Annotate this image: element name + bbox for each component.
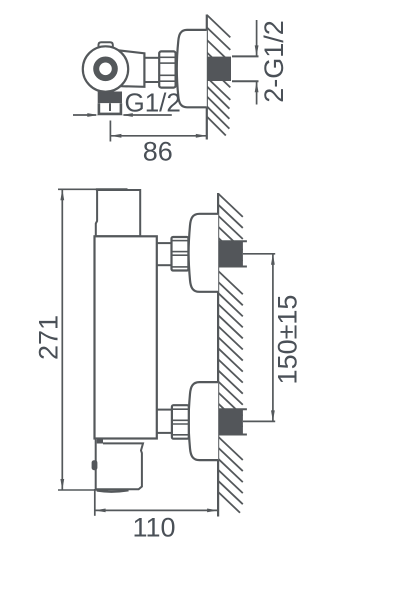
wall section line (top view) [206, 15, 208, 140]
arm upper (front view) [157, 243, 172, 265]
svg-text:271: 271 [34, 315, 64, 360]
neck (top view) [144, 58, 159, 82]
outlet block (top view) [98, 92, 122, 104]
dimension 110 line [95, 509, 219, 511]
wall hatching (front view) [218, 194, 243, 513]
collar nut upper (front view) [172, 237, 189, 271]
thermostat handle circle [83, 46, 128, 91]
outlet thread (top view) [99, 103, 121, 114]
bottom shade arc [97, 490, 129, 491]
dimension 110 extension line left [94, 489, 96, 516]
dimension 150±15 line [272, 254, 274, 422]
dimension 86 extension line [109, 121, 111, 142]
handle ring [96, 60, 115, 79]
supply pipe stub upper (front view) [243, 240, 248, 267]
dimension 271 bottom extension line [58, 489, 108, 491]
supply pipe stub lower (front view) [243, 408, 248, 435]
wall pipe block lower (front view) [218, 409, 243, 434]
collar nut (top view) [159, 51, 175, 87]
escutcheon dome upper (front view) [189, 214, 219, 292]
top knob shade [96, 188, 128, 191]
collar nut lower (front view) [172, 405, 189, 439]
svg-text:G1/2: G1/2 [125, 87, 181, 117]
escutcheon dome lower (front view) [189, 382, 219, 460]
side lever blob [92, 460, 98, 470]
wall pipe block (top view) [207, 57, 231, 81]
wall section line (front view) [217, 193, 219, 517]
inlet pipe stub (top view) [232, 55, 259, 82]
svg-text:150±15: 150±15 [273, 295, 303, 385]
svg-text:2-G1/2: 2-G1/2 [259, 20, 289, 103]
wall pipe block upper (front view) [218, 241, 243, 266]
wall hatching (top view) [207, 15, 231, 136]
dimension 2-G1/2 lines [256, 20, 258, 105]
valve body horn [110, 49, 144, 86]
handle cap (top view) [99, 42, 113, 49]
dimension 86 line [110, 135, 206, 137]
dimension 150±15 extension lines [243, 254, 275, 422]
bottom knob (front view) [92, 439, 143, 492]
escutcheon dome (top view) [177, 30, 207, 107]
dimension 271 top extension line [58, 188, 109, 190]
dimension 271 line [61, 189, 63, 490]
G1/2 leader arrows [73, 114, 172, 116]
top knob (front view) [96, 190, 140, 236]
svg-text:110: 110 [132, 512, 175, 542]
faucet body (front view) [95, 236, 157, 438]
stop button [97, 439, 103, 443]
svg-text:86: 86 [143, 136, 173, 166]
arm lower (front view) [157, 410, 172, 433]
